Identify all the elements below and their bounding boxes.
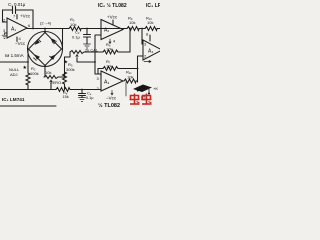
svg-text:+Vсс: +Vсс [107, 15, 118, 20]
svg-text:ZERO: ZERO [50, 80, 61, 85]
svg-text:A₁: A₁ [11, 27, 16, 33]
resistor R8 on rail [56, 88, 70, 100]
potentiometer 10k ZERO [44, 70, 61, 90]
svg-text:+K: +K [153, 86, 158, 91]
wire left net [0, 49, 28, 73]
output arrow [144, 61, 151, 63]
capacitor C4 to ground [79, 89, 94, 100]
capacitor C1 [3, 2, 34, 14]
svg-text:½ TL082: ½ TL082 [98, 102, 120, 109]
svg-text:0.1μ: 0.1μ [72, 35, 81, 40]
svg-text:IC₁ LM741: IC₁ LM741 [2, 97, 25, 102]
svg-text:A₂: A₂ [104, 28, 109, 34]
op-amp A2 [101, 20, 123, 44]
svg-text:A₄: A₄ [148, 49, 153, 55]
svg-text:IC₃ LF: IC₃ LF [146, 3, 160, 9]
svg-text:0.1μ: 0.1μ [86, 96, 93, 100]
op-amp A1 [3, 14, 32, 42]
svg-text:Iм 1.5mA: Iм 1.5mA [5, 53, 24, 58]
wire R7 to A4 inv [128, 56, 143, 82]
svg-text:10k: 10k [147, 20, 153, 25]
wire A1 output bus [27, 28, 160, 30]
ground C4 [79, 98, 86, 102]
diode bridge circle [28, 32, 63, 67]
node output junction [32, 28, 34, 30]
diode D4 bottom-left [29, 49, 46, 66]
potentiometer 2k CAL [70, 48, 99, 63]
svg-text:10k: 10k [127, 75, 133, 80]
watermark chong 2 [142, 94, 152, 105]
svg-text:10k: 10k [45, 70, 51, 75]
svg-text:10k: 10k [106, 64, 112, 69]
wire A3 inv stub [125, 82, 127, 96]
svg-text:−Vсс: −Vсс [106, 96, 117, 101]
wire pot to R3 [58, 72, 65, 77]
op-amp A3 [97, 71, 124, 95]
resistor R11 10k [123, 70, 138, 84]
wire bridge bottom stem [44, 66, 46, 78]
svg-text:15k: 15k [63, 95, 69, 99]
diode D1 top-left [29, 33, 46, 50]
resistor R7 10k [98, 59, 128, 74]
svg-text:C₁ 0.01μ: C₁ 0.01μ [8, 2, 26, 7]
resistor R3 300k vertical [63, 57, 75, 90]
resistor R2 100k vertical [26, 66, 39, 90]
node bridge top [44, 28, 46, 30]
wire feedback right [32, 10, 34, 29]
resistor R6 10k [84, 42, 130, 54]
resistor R5 on bus [69, 17, 81, 31]
svg-text:300k: 300k [66, 67, 75, 72]
wire A2 inv feedback vertical [95, 35, 101, 76]
wire bridge right stem [62, 29, 64, 50]
resistor R9 on bus [127, 16, 139, 31]
wire bridge top stem [44, 29, 46, 32]
svg-text:+Vсс: +Vсс [20, 14, 31, 19]
border line bottom [0, 105, 56, 107]
svg-text:−Vсс: −Vсс [15, 41, 26, 46]
svg-text:(2→4): (2→4) [40, 21, 52, 26]
ground C2 [84, 44, 91, 48]
svg-text:100k: 100k [30, 71, 39, 76]
capacitor C2 to ground [72, 28, 91, 44]
bottom rail [0, 89, 101, 91]
svg-text:ADJ: ADJ [10, 72, 18, 77]
watermark chong 1 [130, 94, 140, 105]
wire R6 up to bus [129, 29, 131, 53]
svg-text:10k: 10k [106, 47, 112, 52]
svg-text:A₃: A₃ [104, 80, 109, 86]
resistor R10 on bus [145, 16, 157, 31]
wire feedback left [2, 10, 4, 22]
ground A1 noninv [2, 33, 7, 38]
diode D2 top-right [45, 33, 62, 50]
svg-text:★: ★ [23, 65, 28, 71]
diode D3 bottom-right [45, 49, 62, 66]
op-amp A4 [143, 32, 162, 61]
svg-text:10k: 10k [70, 22, 76, 27]
wire R9-R10 node down to A4 [142, 29, 143, 45]
svg-text:IC₂ ½ TL082: IC₂ ½ TL082 [98, 2, 127, 9]
watermark cap [133, 85, 158, 100]
svg-text:C₄: C₄ [87, 92, 92, 96]
wire CAL left to R3 [65, 52, 71, 57]
svg-text:10k: 10k [129, 20, 135, 25]
